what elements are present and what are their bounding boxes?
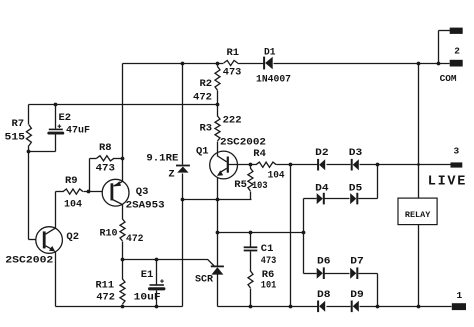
- wire SCR gate row: [123, 259, 215, 266]
- svg-text:222: 222: [223, 115, 242, 127]
- svg-text:1: 1: [457, 290, 463, 301]
- label E2: [59, 112, 72, 124]
- label R4: [253, 148, 266, 160]
- label D3: [349, 147, 363, 159]
- label R1: [227, 47, 240, 59]
- label E1: [141, 269, 154, 281]
- diode D6: [317, 267, 324, 279]
- label 10uF: [134, 291, 161, 303]
- wire Q1 base row to LIVE terminal: [229, 164, 451, 166]
- capacitor C1: [244, 233, 258, 272]
- wire bottom rail: [218, 306, 452, 308]
- node dot D4 branch at SCR row: [302, 231, 306, 235]
- diode D7: [350, 267, 357, 279]
- diode D5: [350, 193, 357, 205]
- wire D4 row: [304, 165, 378, 199]
- label Q1: [196, 146, 209, 158]
- svg-text:Q1: Q1: [196, 146, 209, 158]
- label LIVE: [428, 174, 467, 189]
- label 515: [5, 132, 26, 144]
- svg-text:SCR: SCR: [195, 273, 214, 285]
- label COM: [440, 73, 457, 84]
- svg-text:COM: COM: [440, 73, 457, 84]
- label 473 of R8: [96, 163, 115, 175]
- label 2SA953: [126, 200, 165, 212]
- node dot R6 bottom: [249, 305, 253, 309]
- svg-text:C1: C1: [261, 243, 274, 255]
- svg-text:R9: R9: [65, 175, 78, 187]
- wire Q1 emitter down to SCR row: [217, 200, 219, 233]
- wire diode-network left column: [290, 165, 292, 307]
- label C1: [261, 243, 274, 255]
- label 472 of R2: [193, 91, 212, 103]
- node dot SCR top junction: [216, 231, 220, 235]
- svg-text:103: 103: [252, 180, 268, 192]
- transistor Q3: [102, 159, 129, 220]
- label Q2: [66, 231, 79, 243]
- svg-text:D1: D1: [264, 47, 276, 59]
- svg-text:D6: D6: [317, 256, 331, 268]
- node dot relay column at LIVE row: [417, 163, 420, 166]
- wire bottom-left rail: [56, 306, 183, 308]
- wire zener bottom down to bottom-left rail: [182, 200, 184, 307]
- capacitor E2: [49, 105, 63, 152]
- node dot relay bottom: [417, 305, 421, 309]
- wire Q2 emitter down: [55, 252, 57, 307]
- svg-text:D8: D8: [317, 289, 331, 301]
- resistor R8: [90, 156, 123, 161]
- label R6: [262, 269, 275, 281]
- svg-text:Q3: Q3: [136, 186, 149, 198]
- svg-text:473: 473: [96, 163, 115, 175]
- node dot bottom of left column: [289, 305, 293, 309]
- label D5: [349, 182, 363, 194]
- capacitor E1: [150, 260, 164, 307]
- label R5: [234, 179, 247, 191]
- node dot zener bottom junction: [181, 198, 185, 202]
- resistor R11: [120, 260, 125, 307]
- label D6: [317, 256, 331, 268]
- svg-text:R11: R11: [96, 279, 115, 291]
- svg-text:Q2: Q2: [66, 231, 79, 243]
- node dot R2 bottom: [216, 103, 220, 107]
- resistor R10: [120, 219, 125, 260]
- diode D1: [264, 57, 273, 70]
- zener diode Z 9.1V: [176, 166, 190, 173]
- svg-text:104: 104: [268, 169, 285, 181]
- node dot zener top: [181, 62, 185, 66]
- svg-text:R3: R3: [200, 123, 213, 135]
- svg-text:E2: E2: [59, 112, 72, 124]
- label RELAY: [405, 211, 431, 220]
- svg-text:D4: D4: [315, 182, 329, 194]
- svg-text:R1: R1: [227, 47, 240, 59]
- label Z: [168, 169, 174, 181]
- svg-text:R8: R8: [99, 142, 112, 154]
- resistor R6: [248, 271, 253, 307]
- node dot R5 top: [249, 163, 253, 167]
- node dot R2 top: [216, 62, 220, 66]
- wire second rail y=104: [29, 104, 218, 106]
- wire left branch of top rail going down to R8 node: [122, 64, 124, 159]
- label D4: [315, 182, 329, 194]
- label 472 of R11: [96, 291, 115, 303]
- svg-text:473: 473: [261, 255, 277, 267]
- svg-text:9.1RE: 9.1RE: [146, 152, 178, 164]
- label R9: [65, 175, 78, 187]
- svg-text:D3: D3: [349, 147, 363, 159]
- node dot relay top: [417, 62, 421, 66]
- diode D8: [318, 301, 325, 313]
- label 2SC2002 of Q2: [5, 254, 53, 266]
- label 2: [454, 45, 460, 56]
- wire emitter row of Q1: [183, 199, 252, 201]
- svg-text:3: 3: [454, 146, 460, 157]
- diode D3: [352, 159, 359, 171]
- resistor R2: [215, 64, 220, 105]
- diode D4: [317, 193, 324, 205]
- svg-text:D7: D7: [350, 256, 364, 268]
- node dot terminal2 branch: [437, 62, 441, 66]
- label 473 of R1: [223, 67, 242, 79]
- node dot E2 top: [54, 103, 58, 107]
- label 3: [454, 146, 460, 157]
- svg-text:R2: R2: [200, 78, 213, 90]
- label 101 of R6: [261, 280, 277, 292]
- svg-text:R5: R5: [234, 179, 247, 191]
- label 1: [457, 290, 463, 301]
- wire terminal2 branch: [439, 31, 451, 64]
- wire left rail down to Q2 base: [29, 152, 36, 240]
- label R3: [200, 123, 213, 135]
- node dot R7/E2 bottom: [27, 150, 31, 154]
- node dot R8 right at supply branch: [121, 157, 125, 161]
- terminal 1: [452, 303, 466, 310]
- label 103 of R5: [252, 180, 268, 192]
- label SCR: [195, 273, 214, 285]
- node dot E1 bottom: [155, 305, 159, 309]
- svg-text:472: 472: [96, 291, 115, 303]
- node dot Q1 emitter junction: [216, 198, 220, 202]
- svg-text:R7: R7: [12, 118, 25, 130]
- label D1: [264, 47, 276, 59]
- diode D2: [318, 159, 325, 171]
- node dot E1 top: [155, 258, 159, 262]
- resistor R3: [215, 105, 220, 153]
- label 222 of R3: [223, 115, 242, 127]
- thyristor SCR: [211, 233, 224, 307]
- label Q3: [136, 186, 149, 198]
- node dot C1 top: [249, 231, 253, 235]
- svg-text:D5: D5: [349, 182, 363, 194]
- svg-text:2SC2002: 2SC2002: [220, 137, 266, 149]
- label 473 of C1: [261, 255, 277, 267]
- wire D6 row: [304, 274, 378, 307]
- terminal 2: [450, 28, 463, 34]
- transistor Q1: [210, 151, 238, 199]
- label 472 of R10: [126, 233, 144, 245]
- label 9.1RE: [146, 152, 178, 164]
- label R8: [99, 142, 112, 154]
- label R10: [100, 227, 118, 239]
- svg-text:47uF: 47uF: [66, 125, 90, 137]
- wire E2 bottom bracket: [29, 151, 56, 153]
- label D7: [350, 256, 364, 268]
- wire R8 left bracket: [89, 159, 91, 192]
- wire R9 left lead down to Q2 collector: [55, 192, 57, 229]
- svg-text:LIVE: LIVE: [428, 174, 467, 189]
- resistor R7: [26, 105, 31, 152]
- terminal 3: [451, 162, 463, 167]
- wire top supply rail: [123, 63, 450, 65]
- svg-text:472: 472: [126, 233, 144, 245]
- transistor Q2: [36, 227, 63, 254]
- label 104 of R9: [64, 198, 82, 210]
- label E2 plus: [58, 124, 62, 128]
- svg-text:2SC2002: 2SC2002: [5, 254, 53, 266]
- resistor R1: [224, 60, 238, 65]
- svg-text:515: 515: [5, 132, 26, 144]
- node dot R10/R11 junction: [121, 258, 125, 262]
- svg-text:10uF: 10uF: [134, 291, 161, 303]
- label 2SC2002 of Q1: [220, 137, 266, 149]
- label R2: [200, 78, 213, 90]
- label D9: [350, 289, 364, 301]
- svg-text:2SA953: 2SA953: [126, 200, 165, 212]
- svg-text:E1: E1: [141, 269, 154, 281]
- label R11: [96, 279, 115, 291]
- svg-text:D9: D9: [350, 289, 364, 301]
- node dot D7 branch bottom: [376, 305, 380, 309]
- label R7: [12, 118, 25, 130]
- svg-text:1N4007: 1N4007: [256, 74, 291, 86]
- label D2: [315, 147, 329, 159]
- wire zener branch vertical: [182, 64, 184, 200]
- svg-text:104: 104: [64, 198, 82, 210]
- label 1N4007: [256, 74, 291, 86]
- svg-text:R4: R4: [253, 148, 266, 160]
- resistor R5: [248, 165, 253, 200]
- terminal COM: [450, 60, 463, 67]
- label D8: [317, 289, 331, 301]
- svg-text:RELAY: RELAY: [405, 211, 431, 220]
- svg-text:472: 472: [193, 91, 212, 103]
- node dot D3 right: [376, 163, 380, 167]
- node dot R11 bottom: [121, 305, 125, 309]
- svg-text:D2: D2: [315, 147, 329, 159]
- svg-text:Z: Z: [168, 169, 174, 181]
- resistor R9: [56, 189, 103, 194]
- svg-text:R10: R10: [100, 227, 118, 239]
- label 47uF: [66, 125, 90, 137]
- label E1 plus: [160, 279, 164, 283]
- label 104 of R4: [268, 169, 285, 181]
- svg-text:473: 473: [223, 67, 242, 79]
- wire D4 left branch down: [303, 199, 305, 274]
- node dot D2 left: [289, 163, 293, 167]
- node dot Q3 base: [87, 190, 91, 194]
- relay box: [398, 198, 437, 225]
- svg-text:101: 101: [261, 280, 277, 292]
- resistor R4: [256, 162, 276, 167]
- svg-text:2: 2: [454, 45, 460, 56]
- wire SCR cathode row: [218, 232, 304, 234]
- wire relay column: [418, 64, 420, 307]
- diode D9: [352, 301, 359, 313]
